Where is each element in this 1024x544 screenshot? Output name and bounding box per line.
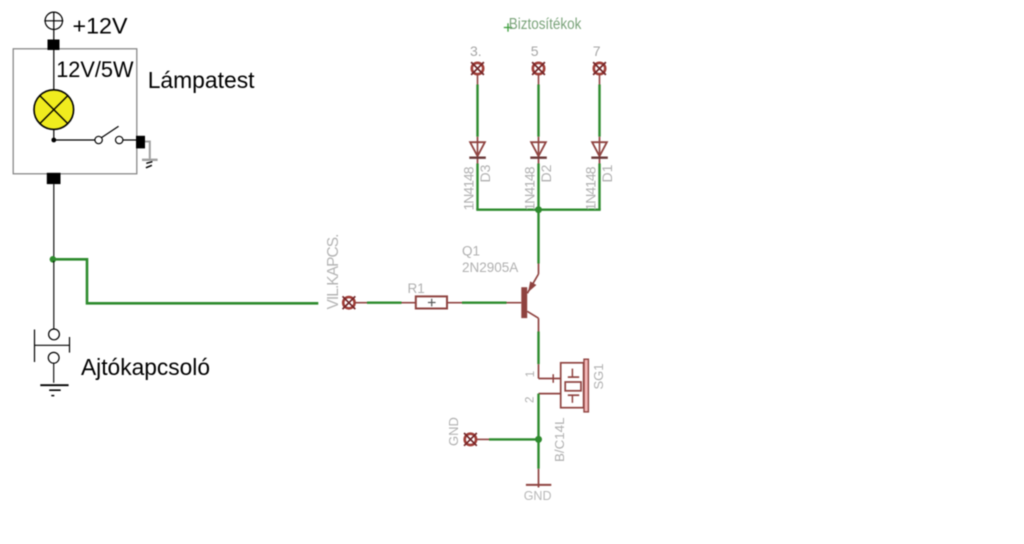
svg-text:1N4148: 1N4148 [522,166,538,210]
svg-text:SG1: SG1 [591,363,606,389]
svg-text:1N4148: 1N4148 [461,166,477,210]
svg-text:7: 7 [593,43,601,59]
svg-text:+12V: +12V [73,14,128,39]
svg-text:Biztosítékok: Biztosítékok [509,16,582,33]
svg-text:5: 5 [531,43,539,59]
svg-text:Ajtókapcsoló: Ajtókapcsoló [81,354,210,380]
svg-text:1: 1 [525,371,537,377]
svg-text:D2: D2 [538,164,554,182]
svg-text:3.: 3. [470,43,482,59]
svg-text:2: 2 [525,397,537,403]
svg-text:1N4148: 1N4148 [583,166,599,210]
svg-text:VIL.KAPCS.: VIL.KAPCS. [325,234,342,310]
svg-text:B/C14L: B/C14L [552,418,567,463]
svg-text:GND: GND [446,417,461,446]
svg-text:Q1: Q1 [462,244,480,259]
svg-text:D1: D1 [599,164,615,182]
svg-text:R1: R1 [408,281,425,296]
svg-text:Lámpatest: Lámpatest [148,67,255,93]
svg-text:GND: GND [524,489,552,503]
svg-text:2N2905A: 2N2905A [462,260,518,275]
svg-text:12V/5W: 12V/5W [56,57,134,82]
svg-text:D3: D3 [477,164,493,182]
